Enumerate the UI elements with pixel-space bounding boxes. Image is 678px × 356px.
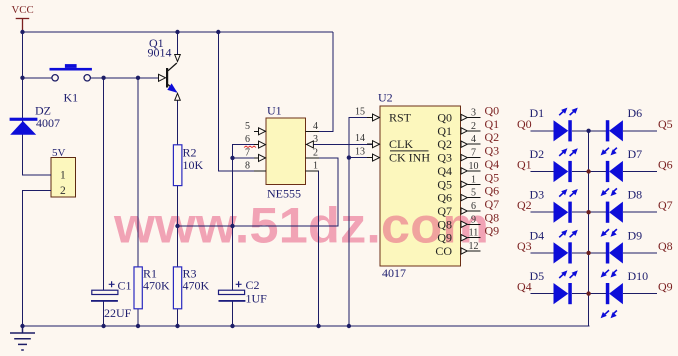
node rail C2 junction [230, 324, 234, 328]
svg-text:22UF: 22UF [104, 306, 132, 320]
svg-text:10: 10 [469, 161, 479, 172]
wire LED common cathode column [588, 131, 590, 326]
pushbutton K1 [50, 64, 92, 81]
pin 2 U1 stub [306, 157, 320, 159]
wire U2 pin15 reset net [349, 118, 372, 327]
svg-text:CLK: CLK [389, 137, 413, 151]
wire VCC top rail [23, 31, 334, 33]
svg-text:470K: 470K [183, 279, 210, 293]
wire R3 top from node [177, 226, 179, 267]
pin 9 U2 Q8 stub [467, 223, 480, 225]
node C1 top junction [101, 76, 105, 80]
svg-text:Q0: Q0 [517, 117, 532, 131]
wire R1 top branch [137, 78, 139, 267]
pin 8 U1 stub [254, 170, 266, 172]
svg-text:Q3: Q3 [517, 239, 532, 253]
wire left vertical VCC to 5V pin1 [23, 32, 52, 175]
pin 1 U1 stub [306, 170, 319, 172]
svg-text:11: 11 [469, 228, 479, 239]
svg-text:Q4: Q4 [485, 157, 500, 171]
wire LED row 3 [531, 211, 658, 213]
pin 11 U2 Q9 stub [467, 237, 480, 239]
LED D3 [554, 189, 578, 223]
node rail left end junction [20, 324, 24, 328]
wire U1 pin2 loop to RC node [178, 158, 339, 226]
svg-text:7: 7 [471, 148, 476, 159]
pin 3 U2 Q0 stub [467, 117, 480, 119]
svg-text:7: 7 [245, 147, 250, 158]
wire U2 pin13 to ground vertical [349, 157, 372, 159]
LED D9 [601, 242, 623, 277]
svg-text:2: 2 [471, 121, 476, 132]
wire K1 right contact to Q1 base [90, 77, 158, 79]
svg-text:Q4: Q4 [517, 280, 532, 294]
svg-text:12: 12 [469, 241, 479, 252]
svg-text:4: 4 [313, 121, 318, 132]
node LED row2 junction [586, 169, 590, 173]
svg-text:Q1: Q1 [517, 158, 532, 172]
svg-text:5: 5 [471, 188, 476, 199]
svg-text:CO: CO [435, 244, 452, 258]
resistor R3 470K [173, 267, 181, 309]
svg-text:D10: D10 [628, 269, 649, 283]
svg-text:3: 3 [313, 134, 318, 145]
wire Q1 emitter to R2 [177, 100, 179, 145]
svg-text:2: 2 [60, 185, 66, 197]
pin 4 U2 Q2 stub [467, 143, 480, 145]
LED D6 [601, 120, 623, 155]
pin 6 U1 stub [254, 144, 266, 146]
svg-text:Q2: Q2 [517, 198, 532, 212]
svg-text:9: 9 [471, 214, 476, 225]
pin 6 U2 Q7 stub [467, 210, 480, 212]
wire U1 pin7 to junction [233, 157, 260, 159]
node VCC rail left junction [20, 30, 24, 34]
node rail C1 junction [101, 324, 105, 328]
pin 7 U1 stub [254, 157, 266, 159]
svg-text:Q5: Q5 [437, 177, 452, 191]
node LED row4 junction [586, 251, 590, 255]
connector J1 body (5V 2-pin header) [51, 158, 76, 198]
svg-text:1: 1 [471, 174, 476, 185]
svg-text:Q8: Q8 [485, 210, 500, 224]
wire U1 pin3 to U2 pin14 [314, 143, 373, 145]
svg-text:D1: D1 [530, 106, 545, 120]
node U1 pin6-7 junction [230, 156, 234, 160]
svg-text:D5: D5 [530, 269, 545, 283]
svg-text:1: 1 [60, 170, 66, 182]
LED D7 [601, 161, 623, 196]
node LED row3 junction [586, 210, 590, 214]
pin 5 U1 stub [254, 130, 266, 132]
node C2 top junction [230, 224, 234, 228]
svg-text:NE555: NE555 [267, 187, 301, 201]
svg-text:D7: D7 [628, 147, 643, 161]
svg-text:4007: 4007 [36, 116, 60, 130]
LED D5 [554, 270, 578, 304]
svg-text:1UF: 1UF [246, 292, 268, 306]
svg-text:Q6: Q6 [658, 158, 673, 172]
svg-text:Q8: Q8 [437, 217, 452, 231]
svg-text:Q7: Q7 [437, 204, 452, 218]
node U2 pin13 ground junction [347, 155, 351, 159]
node R1 top junction [136, 76, 140, 80]
wire R3 bottom to rail [177, 309, 179, 326]
svg-text:Q8: Q8 [658, 239, 673, 253]
node K1 left junction [20, 76, 24, 80]
pin 7 U2 Q3 stub [467, 157, 480, 159]
node Q1 collector junction [175, 30, 179, 34]
wire LED row 4 [531, 252, 658, 254]
svg-text:3: 3 [471, 108, 476, 119]
svg-text:13: 13 [355, 147, 365, 158]
wire U1 pin1 to ground [306, 171, 319, 326]
wire C2 bottom to rail [232, 302, 234, 327]
pin 10 U2 Q4 stub [467, 170, 480, 172]
LED D2 [554, 148, 578, 182]
svg-text:14: 14 [355, 133, 365, 144]
svg-text:Q1: Q1 [437, 124, 452, 138]
node LED row1 junction [586, 129, 590, 133]
wire Q1 collector to rail [177, 32, 179, 55]
transistor Q1 9014 [159, 55, 181, 101]
svg-text:Q9: Q9 [437, 231, 452, 245]
svg-text:C1: C1 [118, 279, 132, 293]
svg-text:Q7: Q7 [658, 198, 673, 212]
svg-text:D9: D9 [628, 228, 643, 242]
op-amp/timer U1 body (NE555 rectangle) [266, 118, 306, 185]
pin 5 U2 Q6 stub [467, 197, 480, 199]
wire LED row 2 [531, 171, 658, 173]
svg-text:D6: D6 [628, 106, 643, 120]
svg-text:Q4: Q4 [437, 164, 452, 178]
capacitor C2 1UF [219, 281, 246, 302]
counter U2 body (4017 rectangle) [380, 106, 461, 266]
svg-text:Q6: Q6 [485, 184, 500, 198]
pin 2 U2 Q1 stub [467, 130, 480, 132]
wire U1 pin6 down C2 branch [233, 145, 260, 290]
svg-text:Q5: Q5 [658, 117, 673, 131]
svg-text:5V: 5V [52, 147, 66, 159]
pin 13 U2 stub [367, 157, 380, 159]
resistor R2 10K [173, 145, 182, 186]
svg-text:8: 8 [245, 161, 250, 172]
svg-text:C2: C2 [246, 278, 260, 292]
svg-text:Q2: Q2 [437, 137, 452, 151]
pin arrows U1 inputs [259, 114, 468, 254]
wire U1 pin4 to VCC rail [306, 32, 334, 131]
node rail R1 junction [136, 324, 140, 328]
wire LED row 1 [531, 130, 658, 132]
svg-text:D8: D8 [628, 188, 643, 202]
wire 5V pin2 to ground rail [23, 190, 52, 326]
error squiggle under pin6 [244, 146, 256, 148]
svg-text:K1: K1 [64, 91, 79, 105]
LED D4 [554, 230, 578, 264]
capacitor C1 22UF [91, 281, 118, 302]
svg-text:RST: RST [389, 111, 412, 125]
node R2-R3 junction [175, 224, 179, 228]
wire VCC to U1 pin8 [218, 32, 266, 171]
pin 4 U1 stub [306, 130, 320, 132]
pin 15 U2 stub [367, 117, 380, 119]
svg-text:1: 1 [313, 161, 318, 172]
svg-text:6: 6 [471, 201, 476, 212]
ground symbol [10, 326, 35, 350]
wire C1 top branch [103, 78, 105, 290]
svg-text:D2: D2 [530, 147, 545, 161]
svg-text:Q5: Q5 [485, 170, 500, 184]
svg-text:6: 6 [245, 134, 250, 145]
wire LED row 5 [531, 293, 658, 295]
diode DZ 4007 [10, 118, 38, 135]
svg-text:9014: 9014 [148, 46, 172, 60]
LED D8 [601, 202, 623, 237]
node rail R3 junction [175, 324, 179, 328]
svg-text:Q1: Q1 [485, 117, 500, 131]
svg-text:Q9: Q9 [485, 224, 500, 238]
svg-text:15: 15 [355, 107, 365, 118]
resistor R1 470K [134, 267, 142, 309]
svg-text:CK INH: CK INH [389, 151, 430, 165]
svg-text:10K: 10K [183, 158, 204, 172]
pin 12 U2 CO stub [467, 250, 480, 252]
LED D10 [601, 283, 623, 318]
pin arrow U1 output pin3 [307, 141, 314, 148]
svg-text:Q3: Q3 [485, 144, 500, 158]
wire ground bottom rail [23, 325, 590, 327]
LED D1 [554, 108, 578, 142]
wire C1 bottom to rail [103, 302, 105, 327]
svg-text:470K: 470K [143, 279, 170, 293]
node rail reset net junction [347, 324, 351, 328]
wire VCC rail to K1 left contact [23, 77, 52, 79]
pin 1 U2 Q5 stub [467, 183, 480, 185]
power VCC symbol [16, 19, 30, 33]
pin 3 U1 stub [306, 143, 314, 145]
svg-text:Q6: Q6 [437, 191, 452, 205]
svg-text:Q9: Q9 [658, 280, 673, 294]
svg-text:4: 4 [471, 134, 476, 145]
svg-text:U2: U2 [378, 91, 393, 105]
svg-text:Q0: Q0 [437, 111, 452, 125]
pin arrows U2 outputs [461, 114, 467, 120]
svg-text:U1: U1 [267, 104, 282, 118]
wire R1 bottom to rail [137, 309, 139, 326]
svg-text:D3: D3 [530, 188, 545, 202]
svg-text:D4: D4 [530, 228, 545, 242]
svg-text:VCC: VCC [12, 4, 34, 16]
node U1 pin8 supply junction [216, 30, 220, 34]
svg-text:Q3: Q3 [437, 151, 452, 165]
node rail U1 pin1 junction [316, 324, 320, 328]
pin arrows U2 inputs [373, 114, 380, 121]
svg-text:2: 2 [313, 147, 318, 158]
svg-text:Q0: Q0 [485, 104, 500, 118]
svg-text:Q2: Q2 [485, 130, 500, 144]
svg-text:5: 5 [245, 121, 250, 132]
svg-text:4017: 4017 [382, 266, 406, 280]
svg-text:Q7: Q7 [485, 197, 500, 211]
pin 14 U2 stub [367, 143, 380, 145]
node LED row5 junction [586, 291, 590, 295]
wire R2 bottom to node [177, 186, 179, 226]
